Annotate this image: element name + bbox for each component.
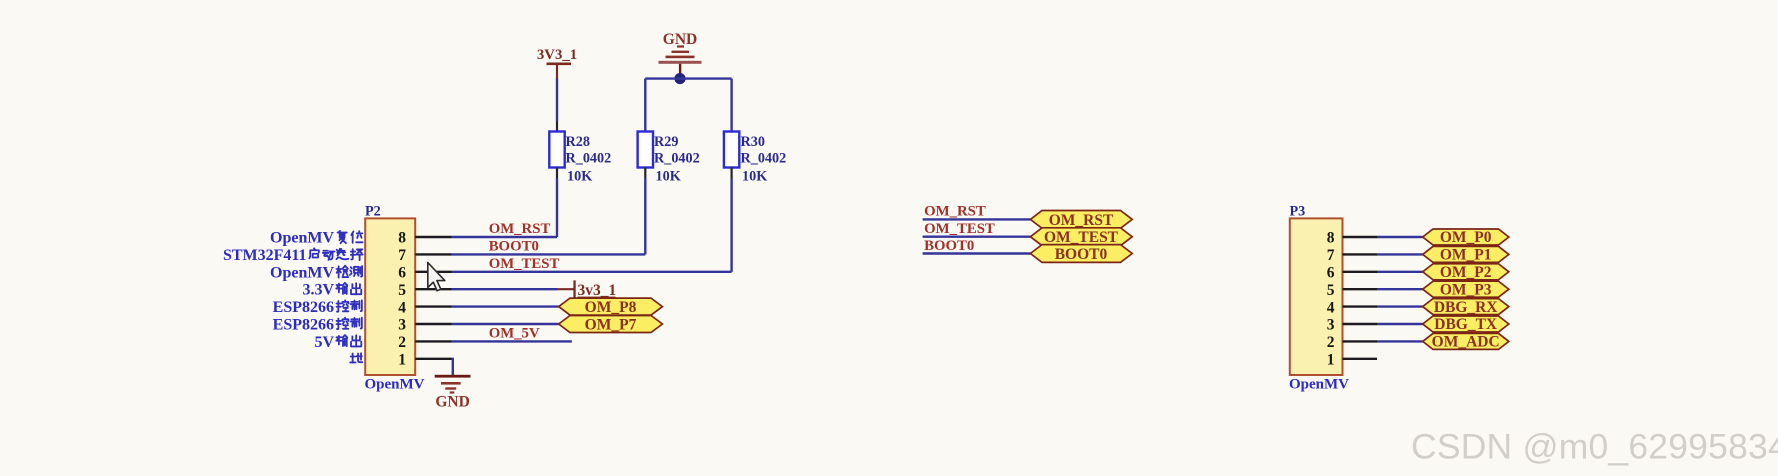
- wire pin6 to port OM_P2: [1377, 271, 1423, 273]
- resistor R29 body: [638, 132, 653, 168]
- wire down to R29: [644, 79, 646, 132]
- svg-text:8: 8: [398, 230, 406, 247]
- power port 3v3_1 underline: [578, 297, 616, 299]
- wire pin4 to port OM_P8: [452, 305, 559, 307]
- wire down to R30: [730, 79, 732, 132]
- wire GND horizontal: [645, 77, 731, 79]
- wire pin6 OM_TEST: [452, 271, 732, 273]
- svg-text:OpenMV: OpenMV: [270, 264, 334, 281]
- P2 pin 5 stub: [415, 288, 451, 290]
- svg-text:R30: R30: [741, 134, 765, 150]
- junction dot: [674, 73, 685, 84]
- P2 pin 7 stub: [415, 253, 451, 255]
- port OM_P2: [1423, 264, 1509, 280]
- ground symbol bottom bar2: [441, 382, 461, 385]
- svg-text:10K: 10K: [567, 169, 592, 185]
- wire pin2 to port OM_ADC: [1377, 340, 1423, 342]
- svg-text:OM_ADC: OM_ADC: [1432, 334, 1500, 351]
- P3 pin 1 stub: [1343, 358, 1378, 360]
- wire pin2 OM_5V: [452, 340, 572, 342]
- svg-text:OpenMV: OpenMV: [270, 230, 334, 247]
- svg-text:OM_P8: OM_P8: [585, 299, 637, 316]
- port OM_ADC: [1423, 333, 1509, 349]
- svg-text:R28: R28: [566, 134, 590, 150]
- P2 pin 1 stub: [415, 358, 451, 360]
- wire pin5 to port OM_P3: [1377, 288, 1423, 290]
- svg-text:3: 3: [398, 317, 406, 334]
- power port 3V3_1 bar: [547, 63, 572, 66]
- svg-text:R_0402: R_0402: [654, 150, 700, 166]
- svg-text:OM_P7: OM_P7: [585, 316, 637, 333]
- svg-text:2: 2: [398, 334, 406, 351]
- port OM_RST: [1030, 211, 1132, 229]
- svg-text:OM_P3: OM_P3: [1440, 281, 1492, 298]
- svg-text:P2: P2: [365, 204, 381, 220]
- wire 3V3_1 to R28: [556, 79, 558, 122]
- svg-text:BOOT0: BOOT0: [489, 239, 539, 255]
- svg-text:OM_RST: OM_RST: [489, 221, 551, 237]
- svg-text:CSDN @m0_62995834: CSDN @m0_62995834: [1411, 427, 1778, 467]
- svg-text:DBG_RX: DBG_RX: [1434, 299, 1499, 316]
- svg-text:3.3V: 3.3V: [302, 282, 334, 299]
- svg-text:3V3_1: 3V3_1: [537, 47, 577, 63]
- svg-text:3: 3: [1327, 317, 1335, 334]
- pin R30 bottom and wire to OM_TEST net: [730, 168, 732, 179]
- power port 3v3_1 stub: [558, 288, 575, 290]
- svg-text:OM_5V: OM_5V: [489, 326, 540, 342]
- port OM_TEST: [1030, 228, 1132, 246]
- P3 pin 3 stub: [1343, 323, 1378, 325]
- port OM_P8: [559, 298, 663, 315]
- mouse cursor: [428, 263, 445, 291]
- P3 pin 7 stub: [1343, 253, 1378, 255]
- svg-text:R29: R29: [654, 134, 678, 150]
- svg-text:R_0402: R_0402: [741, 150, 787, 166]
- port OM_P0: [1423, 229, 1509, 245]
- svg-text:ESP8266: ESP8266: [273, 299, 334, 316]
- ground top stub: [679, 64, 681, 78]
- resistor R30 body: [724, 132, 739, 168]
- svg-text:10K: 10K: [742, 169, 767, 185]
- svg-text:7: 7: [1327, 247, 1335, 264]
- svg-text:1: 1: [398, 352, 406, 369]
- svg-text:2: 2: [1327, 334, 1335, 351]
- svg-text:R_0402: R_0402: [566, 150, 612, 166]
- P2 pin 8 stub: [415, 236, 451, 238]
- svg-text:ESP8266: ESP8266: [273, 317, 334, 334]
- connector P2 body: [365, 218, 415, 375]
- wire pin7 BOOT0: [452, 253, 646, 255]
- svg-text:P3: P3: [1290, 204, 1306, 220]
- P2 pin 3 stub: [415, 323, 451, 325]
- svg-text:OM_RST: OM_RST: [1049, 212, 1114, 229]
- wire pin8 to port OM_P0: [1377, 236, 1423, 238]
- P2 pin 4 stub: [415, 305, 451, 307]
- ground top symbol bar1: [677, 45, 684, 47]
- svg-text:GND: GND: [435, 394, 469, 411]
- svg-text:5: 5: [398, 282, 406, 299]
- svg-text:OM_P0: OM_P0: [1440, 229, 1492, 246]
- P3 pin 8 stub: [1343, 236, 1378, 238]
- pin R29 bottom and wire to BOOT0 net: [644, 168, 646, 179]
- connector P3 body: [1290, 218, 1343, 375]
- wire pin3 to port OM_P7: [452, 323, 559, 325]
- wire net BOOT0: [923, 252, 1031, 254]
- P2 pin 1 label (ground): [350, 353, 362, 362]
- port DBG_TX: [1423, 316, 1509, 332]
- P3 pin 2 stub: [1343, 340, 1378, 342]
- svg-text:OM_TEST: OM_TEST: [1044, 229, 1119, 246]
- port OM_P3: [1423, 281, 1509, 297]
- svg-text:6: 6: [398, 265, 406, 282]
- pin R28 top: [556, 121, 558, 132]
- svg-text:10K: 10K: [656, 169, 681, 185]
- ground symbol bottom bar1: [435, 375, 471, 378]
- port OM_P1: [1423, 246, 1509, 262]
- wire pin4 to port DBG_RX: [1377, 305, 1423, 307]
- P3 pin 4 stub: [1343, 305, 1378, 307]
- svg-text:OpenMV: OpenMV: [1289, 377, 1349, 393]
- wire pin1 to ground: [452, 359, 453, 376]
- wire net OM_TEST: [923, 235, 1031, 237]
- power port 3V3_1 stub: [556, 65, 558, 80]
- svg-text:OM_TEST: OM_TEST: [489, 256, 560, 272]
- ground top symbol bar4: [659, 61, 702, 64]
- wire pin3 to port DBG_TX: [1377, 323, 1423, 325]
- svg-text:5V: 5V: [314, 334, 334, 351]
- svg-text:OM_P2: OM_P2: [1440, 264, 1492, 281]
- port DBG_RX: [1423, 299, 1509, 315]
- ground top symbol bar2: [672, 51, 690, 53]
- svg-text:OM_TEST: OM_TEST: [924, 221, 995, 237]
- resistor R28 body: [549, 132, 564, 168]
- svg-text:3v3_1: 3v3_1: [578, 282, 617, 299]
- svg-text:BOOT0: BOOT0: [1055, 246, 1108, 263]
- wire net OM_RST: [923, 218, 1031, 220]
- P3 pin 6 stub: [1343, 271, 1378, 273]
- svg-text:6: 6: [1327, 265, 1335, 282]
- svg-text:OpenMV: OpenMV: [365, 377, 425, 393]
- svg-text:OM_P1: OM_P1: [1440, 247, 1492, 264]
- wire pin5 to 3v3_1: [452, 288, 558, 290]
- port OM_P7: [559, 316, 663, 333]
- svg-text:DBG_TX: DBG_TX: [1434, 316, 1498, 333]
- P3 pin 5 stub: [1343, 288, 1378, 290]
- svg-text:5: 5: [1327, 282, 1335, 299]
- wire pin8 OM_RST: [452, 236, 558, 238]
- svg-text:4: 4: [398, 299, 406, 316]
- power port 3v3_1 bar: [573, 280, 575, 298]
- P2 pin 6 stub: [415, 271, 451, 273]
- svg-text:STM32F411: STM32F411: [223, 247, 307, 264]
- P2 pin 2 stub: [415, 340, 451, 342]
- pin R28 bottom and wire to OM_RST net: [556, 168, 558, 179]
- svg-text:8: 8: [1327, 230, 1335, 247]
- ground top symbol bar3: [666, 56, 695, 59]
- svg-text:1: 1: [1327, 352, 1335, 369]
- svg-text:OM_RST: OM_RST: [924, 204, 986, 220]
- svg-text:BOOT0: BOOT0: [924, 238, 974, 254]
- wire pin7 to port OM_P1: [1377, 253, 1423, 255]
- svg-text:7: 7: [398, 247, 406, 264]
- ground symbol bottom bar3: [445, 387, 456, 389]
- ground symbol bottom bar4: [450, 391, 455, 393]
- svg-text:4: 4: [1327, 299, 1335, 316]
- port BOOT0: [1030, 245, 1132, 263]
